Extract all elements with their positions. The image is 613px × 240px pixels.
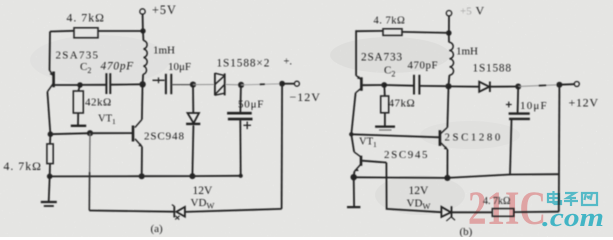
wire terminal to node [142, 14, 144, 31]
wire collector down to junction [351, 93, 355, 152]
output terminal (b) [559, 83, 574, 86]
transistor Q2 2SC948 collector [141, 85, 144, 120]
base wire Q4 [362, 161, 386, 163]
wire zener to resistor [452, 211, 492, 213]
base wire Q1 [55, 84, 80, 86]
feedback L wire [386, 163, 441, 213]
capacitor 10uF (a) [153, 79, 165, 81]
node G [238, 82, 244, 88]
node diode rail [189, 173, 195, 179]
capacitor C2 470pF (b) [413, 75, 415, 95]
bottom feedback wire right [185, 209, 282, 212]
faint stubs around diode pair [193, 84, 214, 86]
diode D1 down [192, 85, 194, 113]
wire resistor to corner [50, 30, 74, 33]
transistor Q4 VT1 2SC945 [354, 152, 360, 157]
wire left upper (emitter lead) [49, 32, 52, 71]
node top [140, 28, 145, 33]
faint wire to output (b) [518, 85, 559, 87]
base wire Q2 [90, 132, 133, 134]
inductor L2 1mH [448, 33, 450, 42]
node base A [77, 82, 83, 88]
node D [48, 131, 54, 137]
node output (b) [556, 82, 562, 88]
transistor Q2 bar [132, 126, 135, 142]
collector wire Q5 [447, 86, 448, 127]
capacitor C2 470pF [105, 73, 107, 94]
transistor Q2 emitter [135, 139, 142, 147]
resistor 42k [73, 91, 83, 113]
node coil bottom (b) [445, 83, 451, 89]
output terminal (a) [282, 83, 294, 85]
junction node (b) [349, 132, 353, 136]
capacitor C2 (b) wire [384, 84, 413, 87]
resistor 4.7k top (b) [383, 29, 402, 36]
glyph zi [565, 193, 576, 198]
zener VDW (a) [173, 206, 175, 217]
bottom feedback wire left [89, 211, 173, 212]
wire C2 to node B [111, 83, 143, 85]
resistor 42k stem [78, 85, 80, 91]
wire top rail left segment [98, 30, 143, 32]
node base (b) [381, 82, 387, 88]
node diode out [515, 84, 521, 90]
watermark chinese 电子网 [548, 191, 597, 206]
glyph wang [582, 193, 597, 205]
wire resistor to riser [514, 211, 559, 213]
node emitter rail [139, 173, 145, 179]
transistor Q1 2SA735 [50, 70, 54, 76]
left wire collector to node D [47, 92, 50, 135]
inductor L1 1mH [142, 31, 144, 41]
node cap rail [239, 174, 243, 178]
ground 47k [384, 113, 386, 126]
transistor Q3 2SA733 [356, 76, 361, 80]
paper noise overlay [0, 0, 1, 1]
node top (b) [446, 30, 452, 36]
node emitter (b) [351, 174, 357, 180]
wire node C to left wire [50, 133, 90, 134]
node B [139, 81, 145, 87]
node C [87, 130, 93, 136]
glyph dian [548, 194, 559, 202]
diode pair 1S1588x2 [214, 73, 216, 95]
wire node to C2 [80, 84, 106, 86]
resistor R 4.7k top (a) [74, 28, 98, 38]
transistor Q5 2SC1280 [439, 130, 442, 146]
node E [47, 174, 53, 180]
wire resistor to node E [49, 164, 51, 177]
bottom rail (b) [354, 174, 559, 178]
riser (b) [558, 85, 561, 212]
resistor 47k (b) [383, 85, 386, 96]
node F [190, 82, 196, 88]
node H output [279, 81, 285, 87]
wire node D to resistor [49, 134, 51, 144]
resistor feedback (b) [492, 209, 514, 217]
diode 1S1588 (b) [449, 85, 480, 87]
wire resistor to node [402, 32, 449, 33]
bottom rail (a) [50, 175, 241, 178]
top corner wire [356, 31, 383, 76]
faint wire to output [241, 84, 282, 85]
resistor 4.7k left (a) [47, 144, 53, 164]
+5V terminal [140, 9, 145, 14]
base line to Q5 [351, 134, 439, 137]
emitter wire Q5 [446, 150, 448, 178]
ground lower (b) [353, 177, 355, 206]
ground lower left (a) [49, 176, 50, 201]
node emitter Q5 [444, 175, 450, 181]
ground 42k [77, 113, 79, 125]
capacitor 50uF [239, 85, 242, 112]
base wire Q3 [362, 84, 384, 86]
+5V terminal (b) [448, 16, 450, 33]
zener VDW (b) [441, 207, 451, 217]
right riser wire [281, 84, 284, 209]
capacitor 10uF (b) [517, 87, 520, 113]
feedback drop wire [89, 133, 91, 172]
